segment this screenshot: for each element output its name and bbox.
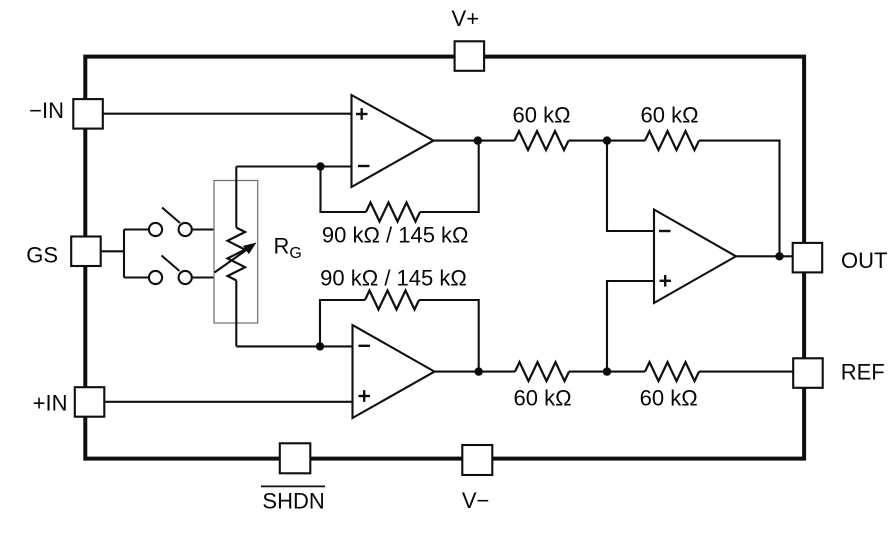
svg-text:REF: REF xyxy=(841,360,885,385)
svg-text:60 kΩ: 60 kΩ xyxy=(513,385,571,410)
junction dot A1 output node xyxy=(474,136,482,144)
RG bottom riser xyxy=(235,280,237,346)
feedback top: to A1 output node xyxy=(420,141,479,212)
resistor 60k top-right xyxy=(645,131,699,150)
pin square -IN xyxy=(73,99,103,129)
wire to switch 1 xyxy=(124,228,149,230)
switch S2 lever xyxy=(162,256,180,272)
resistor 90k/145k bottom xyxy=(365,291,419,310)
wire between top resistors xyxy=(569,140,646,142)
wire switch S2 to RG box xyxy=(192,276,214,278)
resistor RG (vertical zigzag) xyxy=(228,228,246,281)
A3 minus symbol xyxy=(659,230,671,232)
wire +IN to A2 + input xyxy=(105,401,353,403)
wire between bottom resistors xyxy=(569,371,645,373)
svg-text:SHDN: SHDN xyxy=(262,488,324,513)
switch split vertical xyxy=(123,230,125,278)
switch S2 contact circles xyxy=(149,271,162,284)
pin square OUT xyxy=(793,243,823,273)
op-amp A2 xyxy=(353,325,435,418)
op-amp A1 xyxy=(352,95,434,187)
junction dot bottom mid node xyxy=(603,367,611,375)
resistor 90k/145k top xyxy=(366,203,420,222)
svg-text:90 kΩ / 145 kΩ: 90 kΩ / 145 kΩ xyxy=(320,265,467,290)
A1 minus symbol xyxy=(358,165,370,167)
feedback top: riser from A1 - node xyxy=(321,167,367,213)
svg-text:RG: RG xyxy=(274,233,302,261)
wire switch S1 to RG box xyxy=(192,228,214,230)
wire A3 output to OUT pin xyxy=(736,255,793,257)
svg-text:60 kΩ: 60 kΩ xyxy=(640,385,698,410)
wire -IN to A1 + input xyxy=(103,113,352,115)
SHDN overline xyxy=(261,485,325,487)
RG wiper arrow xyxy=(215,250,248,273)
op-amp A3 xyxy=(654,210,736,304)
svg-text:60 kΩ: 60 kΩ xyxy=(640,102,698,127)
RG top riser xyxy=(235,167,237,228)
switch S1 contact circles xyxy=(149,223,162,236)
junction dot top mid node xyxy=(603,136,611,144)
feedback bottom: riser from A2 - node xyxy=(320,300,365,346)
wire node to A3 + input xyxy=(607,281,654,372)
wire bottom chain to REF pin xyxy=(699,371,793,373)
A3 plus symbol xyxy=(660,275,672,287)
RG enclosure box xyxy=(214,181,258,324)
pin square +IN xyxy=(75,387,105,417)
feedback bottom: to A2 output node xyxy=(419,300,479,372)
wire GS to switch split xyxy=(100,250,124,252)
wire A2 output to node xyxy=(435,371,516,373)
junction dot A1 minus node xyxy=(316,162,324,170)
junction dot A2 minus node xyxy=(316,342,324,350)
wire A1 - input xyxy=(236,165,351,167)
junction dot A2 output node xyxy=(475,367,483,375)
svg-text:+IN: +IN xyxy=(33,390,68,415)
resistor 60k bottom-left xyxy=(515,362,569,381)
svg-text:GS: GS xyxy=(26,242,58,267)
svg-text:90 kΩ / 145 kΩ: 90 kΩ / 145 kΩ xyxy=(322,222,469,247)
wire top chain to feedback corner xyxy=(699,141,780,257)
pin square REF xyxy=(793,358,823,388)
svg-text:OUT: OUT xyxy=(841,248,887,273)
junction dot OUT node xyxy=(775,252,783,260)
switch S1 lever xyxy=(162,208,180,224)
pin square V+ xyxy=(455,41,485,71)
device outline box xyxy=(85,57,804,459)
pin square GS xyxy=(71,237,101,267)
svg-text:V+: V+ xyxy=(452,6,480,31)
A1 plus symbol xyxy=(356,108,368,120)
pin square V- xyxy=(462,445,492,475)
wire to switch 2 xyxy=(124,276,149,278)
pin square SHDN xyxy=(280,443,311,473)
resistor 60k top-left xyxy=(515,131,569,150)
wire A2 - input xyxy=(236,345,352,347)
resistor 60k bottom-right xyxy=(645,362,699,381)
svg-text:−IN: −IN xyxy=(29,98,64,123)
A2 minus symbol xyxy=(359,345,371,347)
svg-text:V−: V− xyxy=(462,488,490,513)
A2 plus symbol xyxy=(359,390,371,402)
wire A1 output to node xyxy=(434,140,515,142)
svg-text:60 kΩ: 60 kΩ xyxy=(512,102,570,127)
wire node to A3 - input xyxy=(607,141,654,231)
